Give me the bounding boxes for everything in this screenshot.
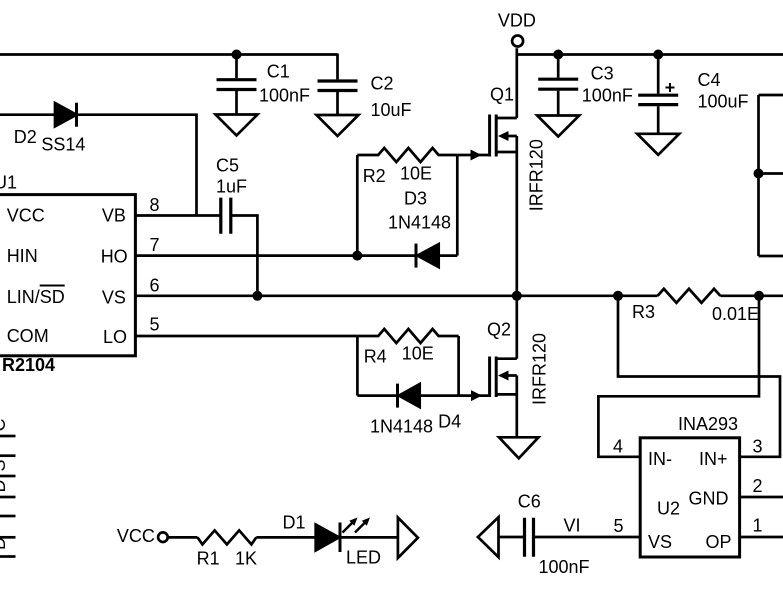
svg-text:S: S (0, 459, 9, 471)
svg-text:C4: C4 (698, 70, 721, 90)
svg-text:6: 6 (150, 276, 160, 296)
svg-text:VCC: VCC (7, 206, 45, 226)
svg-text:Q2: Q2 (487, 320, 511, 340)
svg-text:INA293: INA293 (678, 414, 738, 434)
svg-text:SS14: SS14 (41, 135, 85, 155)
ground (C2) (317, 115, 359, 136)
junction connector middle (754, 169, 764, 179)
LED light arrows (343, 518, 371, 533)
resistor R1 (198, 530, 257, 544)
wire VS rail after R3 (720, 294, 783, 297)
junction R3 left (613, 291, 623, 301)
junction C5/VS (252, 291, 262, 301)
svg-text:R2104: R2104 (2, 355, 55, 375)
wire to D2 anode (0, 113, 55, 116)
svg-text:U1: U1 (0, 173, 17, 193)
svg-text:C5: C5 (216, 156, 239, 176)
svg-text:R4: R4 (364, 347, 387, 367)
wire D2 cathode to VB (77, 115, 197, 216)
svg-text:0.01E: 0.01E (712, 304, 759, 324)
svg-text:1uF: 1uF (216, 177, 247, 197)
svg-text:1: 1 (753, 516, 763, 536)
wire R3 left to IN+ (618, 296, 780, 457)
svg-text:2: 2 (753, 476, 763, 496)
wire VCC top rail (0, 53, 338, 56)
svg-text:IN+: IN+ (699, 449, 728, 469)
svg-text:8: 8 (150, 195, 160, 215)
wire D3 anode to R2 right leg (439, 155, 458, 256)
svg-text:OP: OP (706, 532, 732, 552)
svg-text:LIN/SD: LIN/SD (7, 287, 65, 307)
resistor R2 (357, 148, 457, 162)
wire R3 right to IN- (598, 296, 759, 457)
svg-text:VI: VI (564, 516, 581, 536)
wire gate Q2 (459, 394, 489, 397)
gate arrow Q2 (471, 390, 482, 401)
wire arrow to C6 (499, 536, 524, 539)
left edge connector stubs (0, 436, 16, 557)
svg-text:R2: R2 (363, 166, 386, 186)
svg-text:U2: U2 (657, 498, 680, 518)
svg-text:100uF: 100uF (698, 92, 749, 112)
wire D1 to output arrow (341, 536, 398, 539)
svg-text:1N4148: 1N4148 (388, 213, 451, 233)
svg-text:4: 4 (613, 437, 623, 457)
diode D4 (357, 384, 458, 408)
wire LO pin 5 (135, 335, 357, 338)
svg-text:R1: R1 (197, 549, 220, 569)
svg-text:C: C (0, 419, 9, 432)
IC U1 gate driver IR2104 box (0, 195, 135, 356)
wire C6 to VS pin 5 (535, 536, 641, 539)
resistor R3 (658, 289, 721, 303)
capacitor C1 (217, 55, 257, 115)
wire VS pin 6 rail (135, 294, 658, 297)
wire VB pin 8 to C5 (135, 214, 220, 217)
ground (C3) (537, 116, 579, 137)
capacitor C4 polarized (638, 55, 678, 134)
wire R4 right leg (457, 336, 460, 396)
svg-text:VCC: VCC (117, 526, 155, 546)
transistor Q1 (490, 48, 517, 296)
ground (C1) (216, 115, 258, 136)
wire VDD rail (518, 53, 783, 56)
svg-text:HIN: HIN (7, 246, 38, 266)
svg-text:GND: GND (689, 489, 729, 509)
capacitor C3 (538, 55, 578, 116)
IC U2 current sense amplifier INA293 box (640, 438, 739, 557)
junction C3 top (553, 50, 563, 60)
svg-text:10E: 10E (400, 163, 432, 183)
ground (Q2 source) (499, 437, 539, 458)
svg-text:D4: D4 (438, 412, 461, 432)
svg-text:HO: HO (101, 247, 128, 267)
wire HO pin 7 (135, 254, 416, 257)
svg-text:D3: D3 (404, 189, 427, 209)
svg-text:100nF: 100nF (582, 86, 633, 106)
svg-text:5: 5 (614, 516, 624, 536)
svg-text:C3: C3 (591, 63, 614, 83)
svg-text:D: D (0, 480, 9, 493)
svg-text:IRFR120: IRFR120 (527, 139, 547, 211)
svg-text:D: D (0, 537, 9, 550)
junction C4 top (653, 50, 663, 60)
svg-text:D2: D2 (14, 127, 37, 147)
svg-text:IRFR120: IRFR120 (530, 333, 550, 405)
wire R2 left leg (356, 155, 359, 256)
svg-text:VDD: VDD (498, 10, 536, 30)
svg-text:C1: C1 (267, 62, 290, 82)
transistor Q2 (490, 296, 517, 438)
wire C5 to VS (232, 216, 257, 296)
diode D1 LED (316, 523, 340, 553)
svg-text:7: 7 (150, 235, 160, 255)
svg-text:COM: COM (7, 326, 49, 346)
svg-text:5: 5 (150, 315, 160, 335)
resistor R4 (357, 329, 458, 343)
svg-text:VS: VS (102, 288, 126, 308)
ground (C4) (637, 134, 679, 155)
wire R1 to D1 (256, 536, 315, 539)
wire gate Q1 (457, 154, 488, 157)
svg-text:VB: VB (102, 205, 126, 225)
connector load at right edge (759, 95, 783, 256)
wire R4 left leg (356, 336, 359, 396)
wire GND pin 2 (740, 496, 783, 499)
wire OP pin 1 (740, 536, 783, 539)
capacitor C6 (525, 518, 534, 557)
wire VCC to R1 (168, 536, 198, 539)
svg-text:10uF: 10uF (371, 100, 412, 120)
svg-text:VS: VS (648, 532, 672, 552)
svg-text:IN-: IN- (648, 449, 672, 469)
svg-text:R3: R3 (632, 302, 655, 322)
node VDD terminal (512, 36, 523, 47)
svg-text:LED: LED (346, 547, 381, 567)
svg-text:10E: 10E (402, 344, 434, 364)
diode D3 (416, 244, 439, 268)
svg-text:100nF: 100nF (259, 86, 310, 106)
diode D2 (55, 103, 77, 127)
svg-text:LO: LO (103, 327, 127, 347)
svg-text:1N4148: 1N4148 (370, 416, 433, 436)
svg-text:3: 3 (753, 436, 763, 456)
input arrow C6 (478, 517, 499, 557)
junction C1 top (232, 50, 242, 60)
capacitor C2 (318, 54, 358, 116)
junction VS/Q1Q2 (512, 291, 522, 301)
junction R3 right (754, 291, 764, 301)
gate arrow Q1 (471, 150, 482, 161)
junction HO/R2/D3 (352, 251, 362, 261)
svg-text:C2: C2 (371, 73, 394, 93)
svg-text:C6: C6 (518, 492, 541, 512)
svg-text:Q1: Q1 (490, 85, 514, 105)
svg-text:1K: 1K (235, 549, 257, 569)
svg-text:D1: D1 (283, 512, 306, 532)
capacitor C5 (221, 198, 231, 234)
output arrow (to HIN) (398, 518, 418, 559)
svg-text:100nF: 100nF (539, 557, 590, 577)
